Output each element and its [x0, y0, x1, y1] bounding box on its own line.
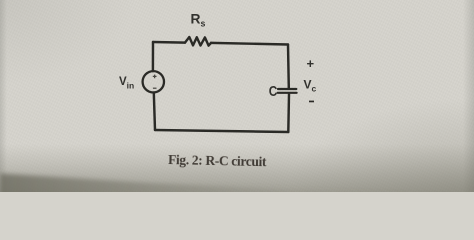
- wire right lower (capacitor to BR corner): [287, 94, 290, 132]
- label - (capacitor polarity): [309, 101, 314, 103]
- bottom-left dark wedge (table edge): [0, 174, 474, 213]
- wire top (resistor to TR corner): [211, 43, 288, 45]
- capacitor C plates: [278, 89, 297, 93]
- right edge strip: [463, 0, 474, 192]
- svg-text:Fig. 2: R-C circuit: Fig. 2: R-C circuit: [168, 152, 267, 169]
- bottom-right vignette: [0, 0, 474, 192]
- wire top (TL corner to resistor): [153, 41, 185, 44]
- texture: [0, 0, 474, 192]
- wire left lower (BL to source): [154, 93, 155, 131]
- wire left upper (source to TL corner): [152, 42, 155, 71]
- top-left corner soft shade: [0, 0, 200, 120]
- background photo shading: [0, 0, 474, 192]
- voltage source Vin: [143, 71, 164, 92]
- resistor Rs: [185, 37, 211, 46]
- svg-text:Rs: Rs: [191, 11, 206, 28]
- source polarity +: [153, 75, 157, 89]
- svg-text:Vc: Vc: [304, 78, 317, 94]
- wire right upper (TR corner to capacitor): [287, 45, 290, 89]
- svg-text:C: C: [269, 83, 278, 100]
- left edge strip: [0, 0, 7, 192]
- wire bottom (BR to BL): [155, 130, 288, 132]
- bottom vignette: [0, 144, 474, 192]
- source polarity -: [153, 87, 157, 89]
- svg-text:+: +: [307, 56, 315, 71]
- svg-text:Vin: Vin: [119, 76, 134, 90]
